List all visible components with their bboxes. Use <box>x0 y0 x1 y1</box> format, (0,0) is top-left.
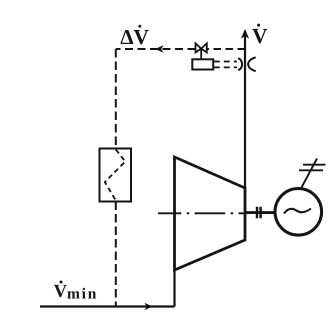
svg-text:Vmin: Vmin <box>54 282 99 303</box>
wire dashed from steam line to valve <box>207 48 245 50</box>
coupling discs on shaft <box>257 207 261 219</box>
wire dashed left vertical upper segment <box>115 49 117 149</box>
centerline dash-dot of shaft <box>158 212 245 214</box>
actuator (servomotor box) <box>192 59 213 69</box>
coupling arc right "(" <box>248 57 256 71</box>
dashed zigzag characteristic inside box <box>105 150 126 201</box>
shaft solid <box>245 211 275 214</box>
wire dashed left vertical lower segment <box>115 202 117 307</box>
wire bottom horizontal steam line V̇min <box>40 305 175 307</box>
turbine (trapezoid) <box>175 157 246 270</box>
wire riser from bottom line to turbine corner <box>173 269 175 307</box>
grid busbar symbol (two bars) <box>299 165 326 171</box>
label V (steam flow V̇) <box>252 24 268 49</box>
wire steam line vertical V̇ <box>244 31 246 189</box>
wire to grid (diagonal) <box>302 159 318 188</box>
coupling arc left ")" <box>238 58 242 70</box>
arrow up on steam line <box>241 29 249 38</box>
svg-text:ΔV: ΔV <box>120 25 149 49</box>
svg-text:V: V <box>252 24 268 48</box>
arrow left on top dashed wire <box>155 45 163 53</box>
generator G (circle) <box>275 189 322 236</box>
valve (control valve bowtie) <box>196 43 207 59</box>
nonlinear element box (dead-band block) <box>100 149 132 202</box>
wire double dashed mechanical link <box>214 62 237 68</box>
arrow right on bottom line <box>144 303 152 311</box>
wire dashed top-left horizontal (signal to corner) <box>116 48 196 50</box>
label deltaV (feedback signal ΔV̇) <box>120 25 149 49</box>
label Vmin (minimum flow V̇min) <box>54 281 99 303</box>
generator sine wave <box>284 209 311 214</box>
